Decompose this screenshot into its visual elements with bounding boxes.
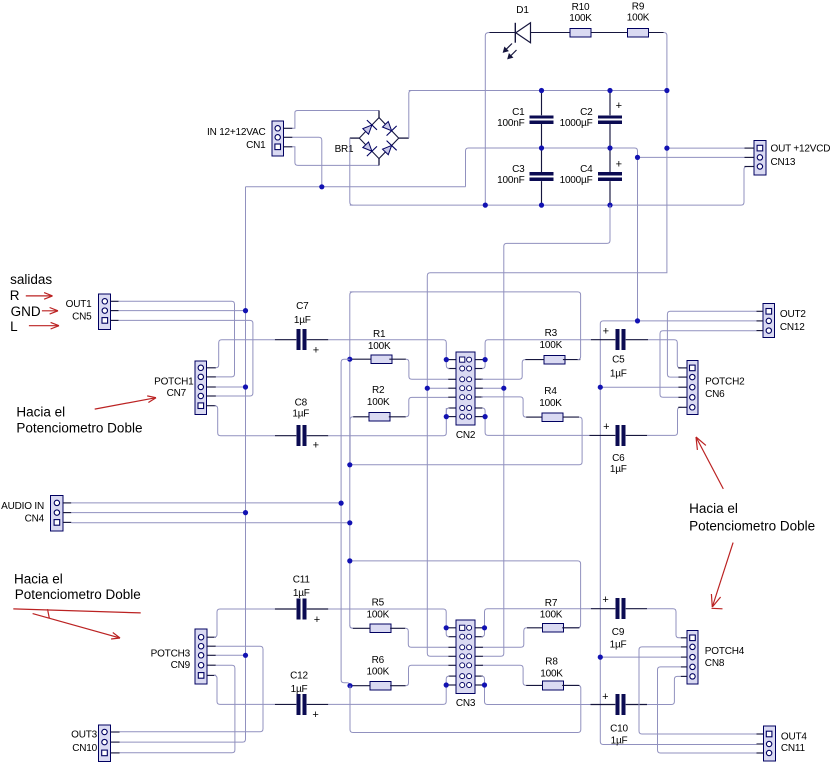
red underline (lower left)	[13, 609, 140, 618]
wire R3 right stub	[563, 359, 580, 361]
svg-text:1µF: 1µF	[610, 368, 627, 379]
wire bridge+ riser to +12 rail	[409, 91, 412, 139]
wire CN3 row6 right stub	[475, 675, 483, 677]
wire 0V branch CN12 pin2	[638, 320, 757, 322]
svg-text:R8: R8	[545, 656, 558, 667]
junction mid rail / C1-C3	[539, 145, 544, 150]
wire CN2 row4 right stub	[475, 387, 483, 389]
junction CN2 row4 right neg	[501, 386, 506, 391]
svg-text:100K: 100K	[367, 667, 390, 678]
wire common rail	[246, 186, 466, 188]
wire CN3 row3 left stub	[448, 646, 456, 648]
svg-text:BR1: BR1	[335, 144, 354, 155]
wire R8 left stub	[526, 684, 543, 686]
svg-text:POTCH1: POTCH1	[154, 377, 194, 388]
wire CN3 rows1-2 left vertical	[446, 628, 449, 637]
resistor R1	[368, 329, 392, 364]
wire CN9 pin1 to C11	[214, 609, 275, 637]
junction +12 rail / R9 vertical	[664, 88, 669, 93]
svg-text:100K: 100K	[540, 610, 563, 621]
wire CN3 rows6-7 right vertical	[482, 676, 485, 685]
svg-text:R6: R6	[372, 655, 385, 666]
svg-text:+: +	[616, 159, 622, 171]
resistor R10	[569, 2, 592, 37]
svg-text:1µF: 1µF	[610, 464, 627, 475]
capacitor C6	[603, 421, 627, 475]
svg-text:Hacia el: Hacia el	[14, 572, 63, 587]
svg-text:1µF: 1µF	[610, 639, 627, 650]
wire C8 stubs	[275, 435, 328, 437]
wire CN2 row4 right to neg	[483, 387, 504, 389]
arrow foot tick	[712, 607, 723, 610]
wire CN4 pin1 wire	[71, 502, 341, 504]
svg-text:C7: C7	[296, 301, 309, 312]
svg-text:OUT4: OUT4	[781, 732, 808, 743]
wire CN3 row4 left stub	[448, 655, 456, 657]
wire CN2 row3 right wire	[482, 378, 483, 380]
wire CN7 pin3 to 0V bus	[216, 386, 246, 388]
svg-text:+: +	[314, 614, 320, 626]
wire negative rail	[350, 167, 747, 206]
svg-text:1µF: 1µF	[293, 588, 310, 599]
wire R3 left stub	[525, 359, 544, 361]
wire CN5 pin2 to 0V bus	[119, 310, 246, 312]
svg-text:100K: 100K	[368, 341, 391, 352]
wire CN9 pin3 to 0V bus	[216, 654, 246, 656]
wire R9 right vertical to +12 rail	[427, 33, 667, 657]
wire POTCH4 pin4 to CN11 pin3	[658, 667, 757, 753]
svg-text:1µF: 1µF	[291, 684, 308, 695]
wire R6-R8 bottom link	[350, 685, 581, 732]
junction 0V / POTCH4 pin3	[598, 655, 603, 660]
svg-text:100K: 100K	[367, 609, 390, 620]
connector CN2	[456, 352, 476, 441]
connector CN8 (POTCH4)	[681, 630, 745, 684]
junction audio-R / R6 left	[347, 683, 352, 688]
resistor R9	[627, 2, 650, 38]
wire C11 stubs	[275, 608, 328, 610]
wire R5 jog to CN3 row3	[405, 628, 448, 647]
wire CN2 row2 left link	[448, 368, 456, 370]
resistor R6	[367, 655, 392, 690]
wire CN2 rows1-2 left vertical	[446, 360, 449, 369]
wire audio-R vertical	[341, 359, 350, 686]
wire C11 right to CN3	[328, 609, 446, 628]
wire C6 right to POTCH2 pin5	[647, 407, 681, 435]
wire CN2 row6 right stub	[475, 407, 483, 409]
junction +12 rail / C2	[607, 88, 612, 93]
junction audio-L branch	[347, 558, 352, 563]
svg-text:1000µF: 1000µF	[560, 118, 593, 129]
svg-text:Hacia el: Hacia el	[16, 405, 65, 420]
junction audio-L / CN4 pin3	[347, 520, 352, 525]
wire R7 left stub	[527, 627, 543, 629]
capacitor C11	[293, 574, 320, 626]
svg-text:C6: C6	[612, 453, 625, 464]
wire R2 left down to audio node	[350, 417, 353, 465]
svg-text:Hacia el: Hacia el	[689, 501, 738, 516]
wire CN2 rows1-2 right vertical	[482, 360, 485, 369]
junction +12 rail / C1	[539, 88, 544, 93]
svg-text:OUT +12VCD: OUT +12VCD	[771, 144, 830, 155]
wire CN3 row1 left stub	[448, 627, 456, 629]
capacitor C7	[294, 301, 319, 357]
svg-text:D1: D1	[516, 5, 529, 16]
svg-text:CN12: CN12	[780, 322, 805, 333]
wire CN3 row6 left stub	[448, 675, 456, 677]
svg-text:100K: 100K	[627, 13, 650, 24]
junction 0V / POTCH2 pin3	[598, 385, 603, 390]
svg-text:1µF: 1µF	[294, 315, 311, 326]
wire CN3 row1 right stub	[475, 627, 483, 629]
connector CN4 (AUDIO IN)	[1, 496, 71, 531]
junction CN2 rows1-2 left	[444, 357, 449, 362]
wire 0V branch to CN13 pin2	[638, 156, 745, 158]
arrow to POTCH3	[33, 614, 120, 639]
junction CN3 rows1-2 left	[444, 625, 449, 630]
arrow GND	[42, 308, 58, 315]
wire CN2 row3 right stub	[475, 378, 483, 380]
wire CN7 pin1 to C7	[216, 340, 275, 368]
wire CN3 row2 left link	[448, 636, 456, 638]
svg-text:OUT3: OUT3	[71, 729, 98, 740]
wire CN2 rows6-7 right to C6	[485, 417, 589, 436]
wire POTCH2 pin2 to CN12 pin1	[667, 311, 756, 377]
wire CN4 pin3 wire	[71, 522, 350, 524]
wire R2 right stub	[389, 416, 406, 418]
svg-text:100K: 100K	[539, 398, 562, 409]
resistor R2	[367, 385, 390, 421]
wire C10 stubs	[591, 704, 648, 706]
wire negative descent to CN2 area	[483, 205, 611, 656]
svg-text:POTCH3: POTCH3	[151, 648, 191, 659]
connector CN5 (OUT1)	[66, 294, 119, 330]
wire CN2 row5 right wire	[482, 396, 483, 398]
arrow to POTCH1	[95, 396, 156, 409]
wire CN2 row6 left stub	[448, 407, 456, 409]
svg-text:Potenciometro Doble: Potenciometro Doble	[16, 420, 142, 435]
svg-text:Potenciometro Doble: Potenciometro Doble	[689, 519, 815, 534]
junction mid rail / C2-C4	[607, 145, 612, 150]
svg-text:OUT2: OUT2	[780, 309, 807, 320]
wire CN9 pin4 to CN10 pin3	[120, 665, 235, 753]
wire C5 right to POTCH2 pin1	[648, 340, 682, 368]
wire R3 right up to audio-L line	[350, 292, 581, 360]
svg-text:CN1: CN1	[246, 140, 266, 151]
svg-text:C3: C3	[512, 164, 525, 175]
svg-text:CN11: CN11	[781, 743, 806, 754]
wire R10 to R9	[591, 32, 628, 34]
svg-text:C12: C12	[290, 670, 308, 681]
svg-text:C9: C9	[612, 627, 625, 638]
diode D1 (LED)	[504, 5, 531, 59]
connector CN6 (POTCH2)	[678, 361, 745, 415]
wire R8 jog to CN3 row5	[482, 665, 527, 685]
svg-text:POTCH4: POTCH4	[705, 646, 745, 657]
svg-text:R3: R3	[545, 328, 558, 339]
junction CN3 rows6-7 left	[444, 682, 449, 687]
wire CN3 row2 right link	[475, 636, 483, 638]
svg-text:CN9: CN9	[171, 660, 191, 671]
wire CN2 row3 left stub	[448, 378, 456, 380]
wire CN2 rows6-7 right vertical	[482, 408, 485, 417]
connector CN10 (OUT3)	[71, 725, 119, 761]
svg-text:C5: C5	[612, 354, 625, 365]
junction audio node R2/R4	[347, 462, 352, 467]
wire CN2 row7 left stub	[448, 416, 456, 418]
svg-text:R2: R2	[372, 385, 385, 396]
resistor R5	[367, 598, 392, 633]
resistor R8	[540, 656, 563, 690]
wire R4 right stub	[563, 416, 579, 418]
svg-text:1µF: 1µF	[611, 736, 628, 747]
wire R5 right stub	[390, 627, 405, 629]
svg-text:R10: R10	[572, 2, 590, 13]
svg-text:100K: 100K	[540, 340, 563, 351]
svg-text:+: +	[603, 421, 609, 433]
svg-text:+: +	[602, 691, 608, 703]
wire CN4 pin2 to 0V bus	[71, 512, 245, 514]
wire CN2 rows6-7 left vertical	[446, 408, 449, 417]
arrow to POTCH4	[711, 543, 733, 607]
wire C5 stubs	[591, 339, 648, 341]
wire POTCH2 pin4 to CN12 pin3	[660, 331, 757, 398]
junction audio-R / CN4 pin1	[339, 501, 344, 506]
wire C10 right to POTCH4 pin5	[647, 676, 681, 704]
svg-text:+: +	[312, 709, 318, 721]
wire CN2 row5 left stub	[448, 396, 456, 398]
wire POTCH4 pin2 to CN11 pin1	[639, 647, 757, 734]
wire R4 left stub	[526, 416, 542, 418]
svg-text:R4: R4	[544, 386, 557, 397]
junction 0V / CN13 pin2 branch	[635, 155, 640, 160]
connector CN9 (POTCH3)	[151, 629, 216, 684]
wire CN2 row5 right stub	[475, 396, 483, 398]
wire R6 right stub	[390, 685, 405, 687]
wire R4 jog to CN2 row5	[482, 397, 527, 417]
svg-text:1000µF: 1000µF	[560, 175, 593, 186]
wire CN2 row7 right stub	[475, 416, 483, 418]
wire CN3 row4 right stub	[475, 655, 483, 657]
svg-text:100K: 100K	[540, 668, 563, 679]
svg-text:R7: R7	[545, 598, 558, 609]
junction CN3 rows6-7 right	[482, 682, 487, 687]
junction CN3 rows1-2 right	[482, 625, 487, 630]
svg-text:AUDIO IN: AUDIO IN	[1, 501, 44, 512]
wire audio-L vertical	[350, 292, 354, 628]
capacitor C1	[497, 107, 554, 129]
resistor R3	[540, 328, 565, 364]
wire CN2 row4 left to +12	[427, 387, 448, 389]
resistor R7	[540, 598, 564, 632]
svg-text:+: +	[616, 100, 622, 112]
svg-text:CN2: CN2	[456, 430, 476, 441]
wire CN2 row2 right link	[475, 368, 483, 370]
junction neg rail / C4	[607, 203, 612, 208]
wire mid 0V rail	[466, 148, 638, 321]
wire POTCH2 pin3 to 0V	[600, 386, 678, 388]
connector CN11 (OUT4)	[757, 726, 808, 761]
svg-text:CN7: CN7	[167, 388, 187, 399]
svg-text:100nF: 100nF	[497, 175, 524, 186]
wire CN3 rows1-2 right riser to C9	[485, 609, 591, 628]
junction 0V bus / CN5 pin2	[243, 308, 248, 313]
wire R4 right down to audio node	[350, 417, 582, 465]
svg-text:C10: C10	[610, 724, 628, 735]
svg-text:CN3: CN3	[456, 698, 476, 709]
svg-text:R9: R9	[632, 2, 645, 13]
wire C12 stubs	[275, 703, 328, 705]
wire D1 to R10	[531, 32, 571, 34]
arrow R	[26, 293, 53, 300]
svg-text:salidas: salidas	[10, 272, 52, 287]
wire bridge- riser	[350, 138, 353, 205]
connector CN1 (IN 12+12VAC)	[207, 121, 292, 156]
junction 0V vertical at 320	[635, 318, 640, 323]
connector CN12 (OUT2)	[757, 303, 807, 337]
wire CN2 row1 left stub	[448, 359, 456, 361]
arrow to POTCH2	[696, 437, 723, 489]
wire CN2 row1 right stub	[475, 359, 483, 361]
wire R2 jog to CN2 row5	[406, 397, 448, 416]
junction CN2 row4 left +12V	[425, 386, 430, 391]
svg-text:+: +	[313, 345, 319, 357]
wire R6 left stub	[350, 685, 370, 687]
wire CN3 row5 right stub	[475, 664, 483, 666]
wire +12 rail	[409, 90, 667, 92]
wire R1 right jog to CN2 row3	[389, 358, 406, 360]
connector CN3	[456, 620, 476, 709]
connector CN7 (POTCH1)	[154, 361, 216, 415]
junction 0V bus / CN4 pin2	[243, 510, 248, 515]
capacitor C9	[602, 594, 626, 650]
svg-text:CN10: CN10	[72, 743, 97, 754]
wire CN1 pin3 to bridge bottom	[292, 147, 379, 166]
wire R9 to corner	[649, 32, 664, 34]
wire 0V down to audio	[600, 321, 756, 745]
wire C1 vertical	[541, 91, 543, 206]
svg-text:100K: 100K	[569, 13, 592, 24]
wire R1 jog	[406, 359, 448, 379]
wire CN7 pin5 to C8	[215, 406, 275, 436]
wire branch +12V to CN13 pin1	[667, 147, 745, 149]
wire R8 right stub	[562, 684, 579, 686]
capacitor C8	[292, 398, 318, 452]
capacitor C10	[602, 691, 628, 746]
svg-text:CN6: CN6	[705, 389, 725, 400]
wire CN5 pin1 to CN7 pin2	[119, 301, 235, 377]
junction 0V bus / CN9 pin3	[243, 653, 248, 658]
svg-text:CN4: CN4	[25, 514, 45, 525]
wire R5 left up audio-L	[350, 625, 353, 628]
svg-text:C8: C8	[295, 398, 308, 409]
svg-text:100K: 100K	[367, 397, 390, 408]
junction +12 vertical / CN13 pin1 branch	[664, 146, 669, 151]
junction common / CN1 pin2	[319, 184, 324, 189]
wire CN3 row7 left stub	[448, 684, 456, 686]
wire audio-L branch	[350, 561, 581, 628]
wire R3 jog to CN2 row3	[482, 360, 526, 380]
wire C12 right to CN3	[328, 685, 446, 704]
wire R5 left stub	[353, 627, 370, 629]
wire R6 jog to CN3 row5	[406, 665, 449, 685]
wire POTCH4 pin3 to 0V	[600, 656, 681, 658]
svg-text:GND: GND	[11, 304, 41, 319]
svg-text:1µF: 1µF	[292, 409, 309, 420]
bridge rectifier BR1	[335, 111, 409, 166]
wire 0V bus down left	[120, 187, 246, 742]
wire C9 right to POTCH4 pin1	[647, 609, 681, 638]
svg-text:100nF: 100nF	[497, 118, 524, 129]
wire CN3 row5 left stub	[448, 664, 456, 666]
wire C9 stubs	[591, 608, 647, 610]
wire C6 stubs	[589, 434, 647, 436]
wire CN1 pin2 to common	[292, 137, 321, 187]
junction CN2 rows6-7 right	[483, 414, 488, 419]
junction neg rail / C3	[539, 203, 544, 208]
svg-text:CN13: CN13	[771, 157, 796, 168]
junction 0V bus / CN7 pin3	[243, 384, 248, 389]
svg-text:R5: R5	[372, 598, 385, 609]
wire CN3 rows6-7 right to C10	[485, 685, 591, 705]
wire C7 right to CN2	[328, 340, 446, 360]
svg-text:CN8: CN8	[705, 658, 725, 669]
resistor R4	[539, 386, 563, 422]
svg-text:C1: C1	[512, 107, 525, 118]
wire CN3 rows1-2 right vertical	[482, 628, 485, 637]
wire R1 left stub	[350, 358, 371, 360]
connector CN13 (OUT +12VCD)	[745, 141, 830, 175]
wire CN3 row7 right stub	[475, 684, 483, 686]
arrow L	[29, 322, 59, 329]
svg-text:+: +	[603, 326, 609, 338]
wire R7 right stub	[562, 627, 579, 629]
svg-text:C2: C2	[580, 107, 593, 118]
wire C2 vertical	[609, 91, 611, 206]
svg-text:C4: C4	[580, 164, 593, 175]
wire CN2 rows1-2 right riser to C5	[485, 340, 591, 360]
svg-text:R1: R1	[373, 329, 386, 340]
capacitor C3	[497, 164, 554, 186]
wire CN3 row3 right stub	[475, 646, 483, 648]
svg-text:OUT1: OUT1	[66, 299, 93, 310]
svg-text:+: +	[602, 594, 608, 606]
capacitor C5	[603, 326, 627, 380]
wire C7 stubs	[275, 339, 328, 341]
wire CN2 row4 left stub	[448, 387, 456, 389]
svg-text:Potenciometro Doble: Potenciometro Doble	[15, 587, 141, 602]
wire R2 left stub	[353, 416, 369, 418]
svg-text:L: L	[10, 319, 18, 334]
capacitor C2	[560, 100, 623, 129]
junction audio node R1 left	[347, 357, 352, 362]
wire R7 jog to CN3 row3	[482, 628, 527, 648]
wire C8 right to CN2	[328, 408, 446, 436]
wire CN9 pin5 to C12	[214, 675, 275, 704]
wire LED row left segment	[490, 32, 516, 34]
wire CN5 pin3 to CN7 pin4	[119, 320, 253, 396]
junction CN2 rows6-7 left	[444, 414, 449, 419]
svg-text:C11: C11	[293, 574, 311, 585]
wire CN9 pin2 to CN10 pin1	[120, 646, 263, 732]
svg-text:POTCH2: POTCH2	[705, 376, 745, 387]
wire LED cathode down to negative rail	[485, 33, 489, 206]
svg-text:CN5: CN5	[72, 312, 92, 323]
wire CN1 pin1 to bridge top	[292, 111, 379, 129]
junction CN2 rows1-2 right	[483, 357, 488, 362]
capacitor C12	[290, 670, 318, 721]
junction neg rail / LED	[483, 203, 488, 208]
